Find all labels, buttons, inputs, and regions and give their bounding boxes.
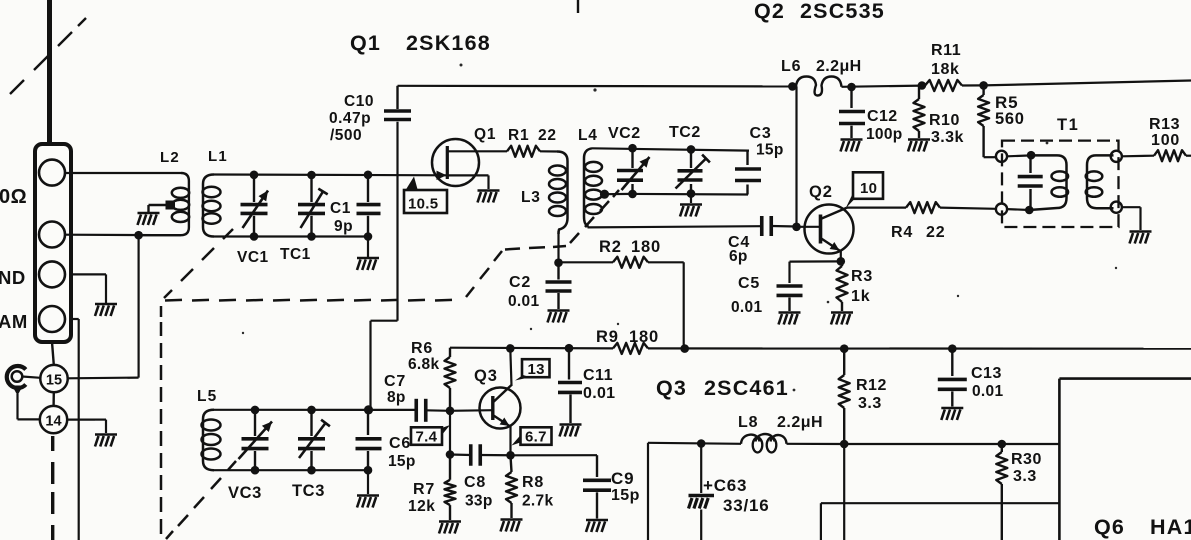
svg-text:TC1: TC1 [280,246,311,263]
svg-text:7.4: 7.4 [416,429,438,446]
wire L6 to R11 [842,86,922,87]
inductor L8 [741,435,760,444]
wire Q2 collector to R4 [847,207,906,209]
svg-text:2SC535: 2SC535 [800,0,885,23]
svg-text:0.01: 0.01 [731,299,762,316]
transformer T1 dashed box [1002,141,1119,227]
svg-text:2.7k: 2.7k [522,493,553,510]
node Q3 base [446,407,455,416]
wire T1 in top [1007,154,1031,157]
svg-text:Q3: Q3 [474,367,498,385]
wire T1 out to R13 [1122,155,1154,158]
Q2 base bar [819,215,823,244]
svg-text:L6: L6 [781,58,801,75]
inductor L5 [203,410,214,470]
capacitor C63 (electrolytic 33/16) [700,444,702,494]
svg-text:10: 10 [860,180,877,197]
ground C5 [779,311,801,314]
inductor L2 [142,173,189,235]
svg-text:12k: 12k [408,498,435,515]
svg-text:L1: L1 [208,148,228,165]
resistor R1 22 [507,146,540,157]
scan specks (noise) [460,64,463,67]
wire lower rail right [844,443,1059,445]
svg-text:HA1: HA1 [1150,515,1191,539]
node Q2 base / L6 [792,223,801,232]
svg-text:0.01: 0.01 [972,383,1003,400]
resistor R8 2.7k [511,455,512,472]
svg-text:3.3: 3.3 [858,395,882,412]
transistor Q2 (2SC535) [805,205,854,254]
node R12 top [840,344,849,353]
wire 15 right to FM junction [68,377,139,380]
wire L6 left down to base node [795,86,797,226]
svg-text:R7: R7 [413,481,435,498]
callout box 10 [853,172,883,199]
svg-text:L2: L2 [160,149,180,166]
resistor R7 12k [449,455,451,480]
svg-text:100p: 100p [866,126,903,143]
wire emitter to C5 [790,260,841,262]
resistor R5 560 [982,85,984,95]
wire junction down to switch 15 [138,235,140,377]
wire 15 to 14 [52,392,55,406]
svg-text:3.3k: 3.3k [931,129,964,146]
svg-text:R9: R9 [596,328,619,346]
wire base node to Q2 [797,226,821,228]
resistor R6 6.8k [449,348,451,357]
svg-text:C8: C8 [464,474,486,491]
svg-text:15p: 15p [611,487,640,504]
connector pin 3 (GND) [39,261,65,287]
wire Q1 source [447,174,488,176]
svg-text:R11: R11 [931,42,961,59]
wire bottom rail [821,502,1060,504]
svg-text:0Ω: 0Ω [0,186,27,208]
wire base to Q3 [450,409,493,412]
gang dashed boundary vertical [160,306,163,317]
wire C7 to base node [426,409,450,412]
svg-text:TC3: TC3 [292,482,325,500]
wire C10 bottom down [396,122,398,321]
resistor R11 18k [925,80,962,91]
svg-text:C13: C13 [971,365,1002,382]
ground C11 [560,423,582,426]
ground tank1 [357,257,379,260]
svg-text:15p: 15p [388,453,416,470]
wire C4 to Q2 base node [772,225,797,228]
connector pin 4 (AM) [39,306,65,332]
svg-text:18k: 18k [931,61,960,78]
T1 terminal in-bottom [996,204,1007,215]
wire tank2 bottom rail [633,193,749,196]
inductor L4 [584,148,592,227]
wire L8 rail [648,443,741,444]
wire L2 tap to ground [149,204,167,206]
inductor L6 [796,77,842,96]
node T1 primary bottom [1025,206,1034,215]
svg-text:/500: /500 [330,127,362,144]
capacitor C5 0.01 [777,284,803,288]
capacitor C13 0.01 [951,349,953,376]
wire dashed diagonal top-left [10,80,24,94]
ground C13 [941,407,963,410]
gang dashed diagonal to VC3 [228,461,236,470]
wire L4 bottom to C4 [588,226,761,227]
wire R4 to T1 [940,208,996,209]
jack J2 (AM ant) [7,366,26,388]
svg-text:VC2: VC2 [608,125,641,142]
wire down to AM tank top [369,321,371,409]
svg-text:2.2μH: 2.2μH [816,58,862,75]
svg-text:33p: 33p [465,493,493,510]
svg-text:C11: C11 [583,367,613,384]
Q2 collector lead [821,208,848,219]
wire R13 to edge [1186,155,1191,157]
svg-text:L5: L5 [197,388,218,405]
capacitor C11 0.01 [568,348,570,379]
wire connector to 15 [52,342,54,365]
T1 terminal out-top [1111,151,1122,162]
transistor Q1 (FET 2SK168) [432,139,479,186]
node R2/rail [680,344,689,353]
ground pin3 [95,303,117,306]
svg-text:2.2μH: 2.2μH [777,414,823,431]
svg-text:0.47p: 0.47p [329,110,371,127]
node C8/R7 [446,450,455,459]
connector strip J1 [35,144,71,342]
wire to C8 [450,453,471,456]
svg-text:C3: C3 [750,125,772,142]
capacitor T1 internal [1029,155,1031,173]
connector pin 1 (FM 300 ohm) [39,160,65,186]
Q3 base bar [491,396,494,420]
wire bottom rail left leg [820,503,822,540]
wire mid rail left [450,347,613,350]
svg-text:C10: C10 [344,93,374,110]
node L6 left [788,82,797,91]
wire tank1 top rail to Q1 gate [214,173,446,176]
wire mid rail right [648,347,1191,350]
svg-text:C6: C6 [389,435,411,452]
svg-text:8p: 8p [387,389,406,406]
ground contact 14 [95,433,117,436]
resistor R10 3.3k [918,86,920,100]
svg-text:Q1: Q1 [350,31,381,55]
svg-text:22: 22 [926,224,945,241]
svg-text:C7: C7 [384,373,406,390]
wire R2 left [562,261,613,263]
capacitor TC3 (trimmer) [307,406,316,415]
IC block Q6 box [1059,377,1191,380]
wire jack to contact 15 [22,377,40,378]
svg-text:TC2: TC2 [669,124,701,141]
Q1 channel bar [446,146,449,179]
ground T1 secondary [1130,230,1152,233]
wire AM line down page [78,319,80,540]
inductor T1 secondary [1087,155,1114,208]
wire pin1 to L2 top [65,172,181,174]
resistor R12 3.3 [843,349,845,375]
resistor R13 100 [1154,150,1186,161]
svg-text:2SK168: 2SK168 [406,31,491,55]
wire tank3 bottom rail [214,469,368,471]
capacitor VC3 (variable) [251,406,260,415]
svg-text:100: 100 [1151,132,1180,149]
callout box 7.4 [411,427,442,445]
node C13 top [948,344,957,353]
inductor T1 primary [1029,155,1066,210]
node R30 top [998,440,1007,449]
wire down from L8 rail corner [647,443,649,540]
wire jack to contact 14 [16,394,18,419]
wire antenna lead-in (thick vertical) [47,0,52,144]
inductor L3 [557,152,568,235]
svg-text:R8: R8 [522,474,544,491]
svg-text:6.8k: 6.8k [408,356,439,373]
Q2 emitter lead [821,238,840,251]
svg-text:14: 14 [45,414,61,430]
wire Q3 collector to rail [510,349,511,386]
node FM antenna junction [134,231,143,240]
wire R2 right [648,261,684,263]
svg-text:Q1: Q1 [474,126,496,143]
wire pin3 to ground [71,273,106,275]
node L3/C2/R2 [554,258,563,267]
capacitor C10 [384,109,411,113]
svg-text:Q2: Q2 [754,0,785,23]
svg-text:15p: 15p [756,142,784,159]
svg-text:3.3: 3.3 [1013,468,1037,485]
svg-text:Q3: Q3 [656,376,687,400]
gang dashed diagonal to VC1 [164,290,172,298]
wire base node down [449,411,451,455]
wire pin2 to L2 bottom [65,234,181,237]
node R5 top [979,81,988,90]
wire tank1 bottom rail [214,235,368,237]
node Q3 emitter [506,451,515,460]
svg-text:2SC461: 2SC461 [704,376,789,400]
wire L8 to R12 node [787,443,845,445]
svg-text:15: 15 [46,373,62,389]
svg-text:AM: AM [0,311,28,332]
ground C9 [586,519,608,522]
ground R8 [501,518,523,521]
node C12 [847,83,856,92]
svg-text:T1: T1 [1057,116,1079,134]
wire emitter to C9 [511,454,598,456]
svg-text:180: 180 [631,238,661,256]
ground tank3 [357,494,379,497]
ground R10 [908,138,930,141]
capacitor VC2 (variable) [628,144,637,153]
inductor L1 [203,175,214,237]
svg-text:L4: L4 [578,127,598,144]
wire tank2 top rail [592,148,749,150]
Q3 collector lead [493,385,512,403]
capacitor C3 15p [746,151,748,165]
svg-text:R13: R13 [1149,116,1180,133]
svg-text:9p: 9p [334,218,353,235]
resistor R4 22 [906,202,940,213]
svg-text:R12: R12 [856,377,887,394]
Q3 emitter lead [493,415,510,426]
wire pin4 (AM) right [71,318,79,320]
capacitor C2 0.01 [557,263,559,280]
node Q2 emitter [837,257,846,266]
svg-text:R1: R1 [508,127,529,144]
capacitor C8 33p [469,444,473,466]
svg-text:1k: 1k [851,288,870,305]
capacitor C1 9p [364,171,373,180]
ground C12 [841,138,863,141]
svg-text:C5: C5 [738,275,760,292]
T1 terminal in-top [996,151,1007,162]
wire L3 bottom down [557,231,559,263]
callout box 10.5 [404,190,447,213]
wire top rail C10 to L6 [398,85,793,88]
svg-text:Q6: Q6 [1094,515,1125,539]
callout box 6.7 [521,427,552,445]
ground L2 tap [138,212,160,215]
node C63 [697,439,706,448]
switch contact 14 [40,406,67,433]
connector pin 2 [39,222,65,248]
wire T1 in bottom [1007,208,1029,211]
capacitor C9 15p [596,455,598,477]
svg-text:22: 22 [538,127,557,144]
svg-text:R3: R3 [851,268,873,285]
wire R12 node down [843,444,845,540]
wire jog left [371,320,398,322]
Q1 gate arrow [437,171,447,180]
node L4 tap [600,190,609,199]
gang dashed diagonal up to VC2 [466,287,474,297]
svg-text:6p: 6p [729,248,748,265]
wire C1 to ground [367,237,369,258]
svg-text:VC3: VC3 [228,484,262,502]
svg-text:R30: R30 [1011,451,1042,468]
capacitor VC1 (variable) [250,171,259,180]
svg-text:+C63: +C63 [703,476,747,495]
capacitor TC2 (trimmer) [687,145,696,154]
svg-text:C2: C2 [509,274,531,291]
T1 terminal out-bottom [1111,202,1122,213]
svg-text:R4: R4 [891,224,913,241]
svg-text:0.01: 0.01 [583,385,615,402]
resistor R30 3.3 [1001,444,1003,452]
svg-text:6.7: 6.7 [525,429,547,446]
svg-text:L8: L8 [738,414,758,431]
wire R5 to T1 [984,156,996,158]
node R12/L8 rail [840,440,849,449]
svg-text:L3: L3 [521,189,541,206]
ground TC2 [680,203,702,206]
svg-text:10.5: 10.5 [408,196,438,213]
wire R2 down to rail [683,262,685,350]
node L2 tap [166,201,176,210]
svg-text:560: 560 [995,110,1025,128]
wire L4 tap to VC2 bottom [605,193,633,196]
node Q3 collector/rail [506,344,515,353]
resistor R9 180 [613,343,648,354]
svg-text:C1: C1 [330,200,351,217]
svg-text:0.01: 0.01 [508,293,539,310]
wire top rail to right edge [984,81,1191,86]
transistor Q3 (2SC461) [480,388,521,429]
wire C6 to ground [367,470,369,494]
capacitor TC1 (trimmer) [307,171,316,180]
ground C2 [548,309,570,312]
svg-text:R6: R6 [411,340,433,357]
capacitor C12 100p [850,87,852,108]
svg-text:33/16: 33/16 [723,496,770,515]
svg-text:Q2: Q2 [809,183,833,201]
svg-text:C9: C9 [611,469,635,488]
wire dash-dot below 14 [51,436,54,451]
wire C8 to emitter node [481,454,511,456]
node T1 primary top [1027,151,1036,160]
wire tank3 top rail [214,409,416,411]
ground R7 [439,520,461,523]
resistor R2 180 [613,257,648,268]
svg-text:R10: R10 [929,112,960,129]
svg-text:13: 13 [528,361,545,378]
node R10/R11 [918,81,927,90]
resistor R3 1k [841,261,843,266]
svg-text:C12: C12 [867,108,898,125]
wire R11 to R5 node [962,84,984,86]
svg-text:ND: ND [0,267,26,288]
svg-text:R2: R2 [599,238,622,256]
wire R1 to L3 [540,150,557,152]
ground Q1 source [478,189,500,192]
wire T1 out-bottom [1122,206,1141,208]
capacitor C6 15p [364,405,373,414]
callout box 13 [522,359,550,377]
capacitor C4 6p [760,216,764,236]
wire Q1 drain to R1 [447,150,507,152]
ground R3 [831,311,853,314]
wire C10 top to rail [396,86,398,109]
wire 14 right [67,419,95,421]
gang dashed boundary horizontal [165,299,182,302]
wire stub top edge [577,0,579,13]
switch contact 15 [40,365,67,392]
node C11 top [565,344,574,353]
capacitor C7 8p [414,399,418,422]
svg-text:VC1: VC1 [237,249,269,266]
